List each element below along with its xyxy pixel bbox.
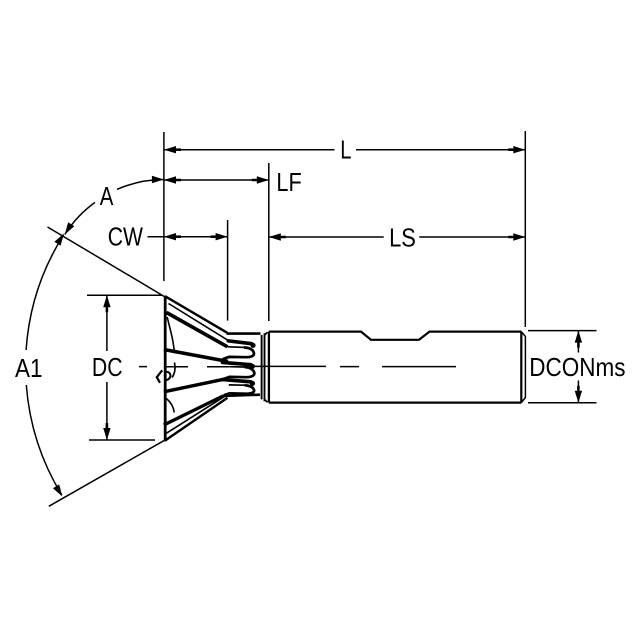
svg-text:CW: CW bbox=[108, 222, 144, 252]
shank bottom edge bbox=[269, 402, 521, 404]
dimension LS bbox=[269, 236, 526, 238]
extension line DCON top bbox=[528, 330, 597, 332]
tooth tip band 2 bbox=[223, 362, 251, 364]
tooth back bottom bbox=[222, 395, 260, 396]
svg-text:A1: A1 bbox=[15, 353, 43, 383]
centerline bbox=[139, 365, 456, 367]
head top silhouette bbox=[165, 296, 227, 333]
scallop S3 bbox=[224, 385, 254, 395]
tooth back top bbox=[227, 332, 261, 335]
shank right end bbox=[520, 332, 522, 403]
flute 2 thick bbox=[164, 379, 226, 392]
dimension DC bbox=[106, 295, 108, 440]
far tooth nub left of face bbox=[157, 370, 162, 383]
tooth tip band 1 bbox=[228, 341, 251, 344]
extension tick DC top bbox=[87, 294, 162, 296]
svg-text:LF: LF bbox=[276, 167, 301, 197]
svg-text:A: A bbox=[100, 181, 114, 211]
svg-text:LS: LS bbox=[389, 222, 416, 252]
flute curve lower bbox=[166, 399, 174, 413]
flute squiggle center bbox=[172, 363, 175, 378]
extension lines bbox=[87, 131, 597, 440]
extension line shank face bbox=[268, 163, 270, 321]
extension line right end bbox=[524, 131, 526, 327]
scallop S1 bbox=[223, 347, 254, 360]
dimension L bbox=[164, 149, 525, 151]
flute loop at edge bbox=[165, 372, 170, 380]
head bottom land line bbox=[166, 395, 227, 434]
shank top edge with notch bbox=[269, 332, 521, 340]
flute curve near edge top bbox=[167, 317, 175, 353]
head bottom silhouette bbox=[165, 398, 228, 441]
diagonal bottom (flank extension) bbox=[49, 440, 165, 506]
extension line DCON bottom bbox=[528, 402, 597, 404]
svg-text:L: L bbox=[340, 135, 351, 165]
diagonal top (flank extension) bbox=[48, 227, 165, 297]
dimension LF bbox=[164, 179, 269, 181]
arrow stems bbox=[107, 150, 579, 428]
angle A arc bbox=[65, 180, 164, 235]
neck lines bbox=[261, 335, 263, 399]
scallop S2 bbox=[223, 367, 254, 380]
head left edge bbox=[164, 296, 167, 441]
flute 1b thick bbox=[164, 350, 228, 362]
dimension CW bbox=[148, 236, 228, 238]
extension line CW right bbox=[227, 220, 229, 321]
dimension DCONms bbox=[577, 331, 579, 403]
head top land line bbox=[169, 304, 229, 341]
neck chamfer top bbox=[265, 332, 268, 335]
shank left face bbox=[268, 332, 270, 403]
shank end chamfer bbox=[521, 332, 525, 403]
flute 1 thick bbox=[167, 313, 228, 347]
neck chamfer bottom bbox=[265, 400, 268, 403]
extension line left face bbox=[163, 132, 165, 281]
svg-text:DC: DC bbox=[92, 352, 123, 382]
extension tick DC bottom bbox=[89, 439, 155, 441]
tooth tip band 3 bbox=[223, 380, 251, 382]
flute 3 thick bbox=[164, 396, 223, 425]
angle A1 arc bbox=[26, 235, 64, 495]
svg-text:DCONms: DCONms bbox=[529, 352, 625, 382]
